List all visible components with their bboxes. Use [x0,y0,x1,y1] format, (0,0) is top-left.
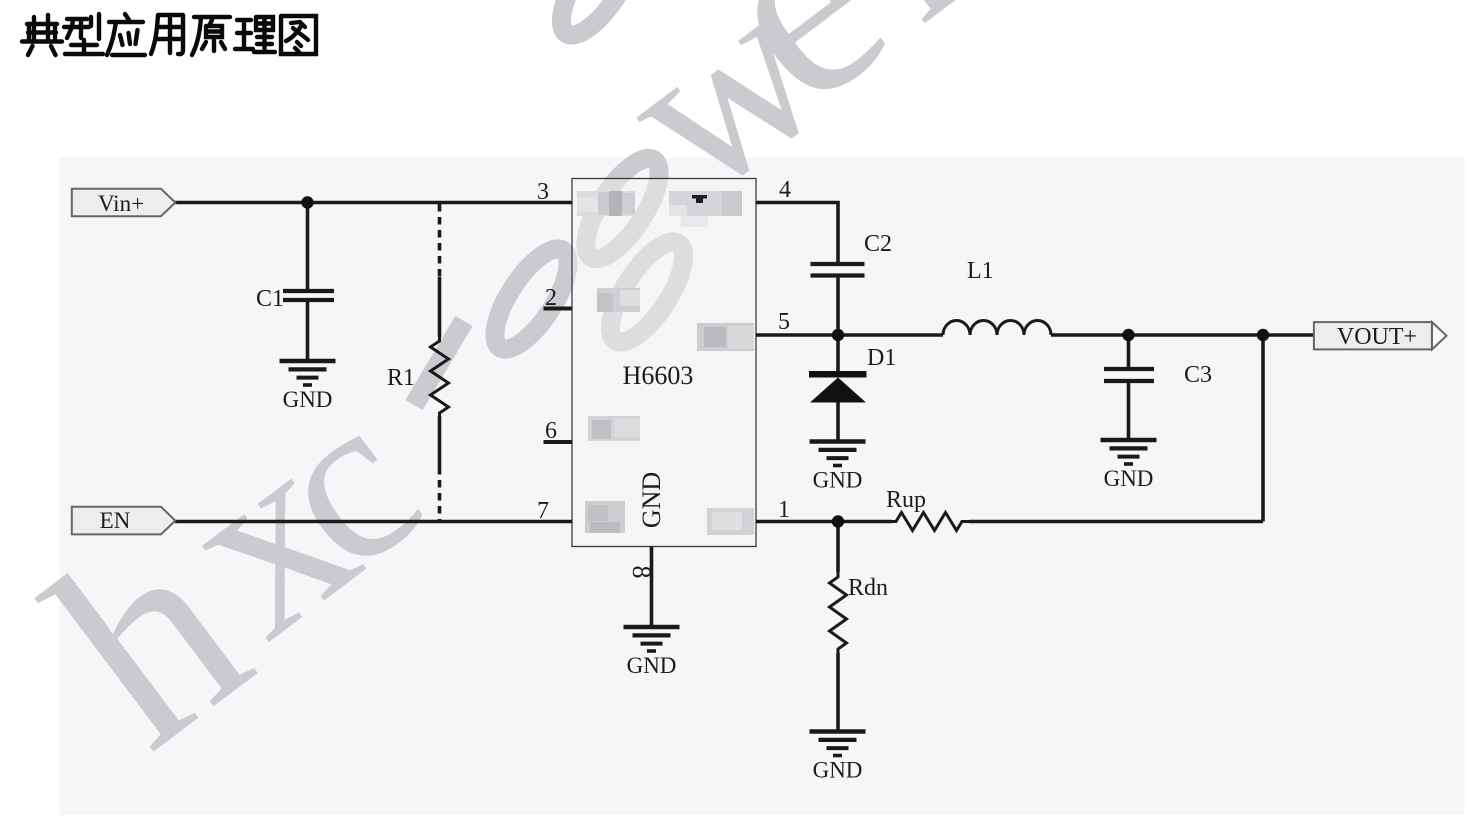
node pin1/Rup/Rdn junction [832,515,844,527]
resistor Rdn zigzag [830,572,847,653]
wire C3 top [1127,335,1131,369]
char 应 [107,14,145,55]
wire C1 bottom to ground [306,300,310,361]
char 原 [192,17,230,55]
svg-text:D1: D1 [867,345,896,371]
svg-text:C3: C3 [1184,362,1212,388]
IC U1 H6603 body [572,179,756,547]
wire L1 to VOUT+ [1051,333,1313,337]
svg-text:C1: C1 [256,286,284,312]
node pin5/C2/D1 junction [832,329,844,341]
svg-text:R1: R1 [387,365,415,391]
pin 3 name mosaic [577,191,635,216]
svg-text:6: 6 [545,418,557,444]
pin 6 stub [544,440,573,444]
pin 2 name mosaic [597,288,640,312]
node C3 junction [1122,329,1134,341]
node Vin/C1 junction [301,196,313,208]
wire Rdn to ground [836,653,840,732]
port EN [72,507,176,535]
pin 5 name mosaic [697,323,754,351]
resistor R1 lower dashed wire [438,467,442,520]
svg-text:VOUT+: VOUT+ [1337,324,1417,350]
wire C2 bottom to pin5 rail [836,276,840,336]
svg-text:Rdn: Rdn [848,575,888,601]
inductor L1 [943,321,1051,336]
wire C3 bottom to ground [1127,381,1131,440]
pin 1 name mosaic [707,508,754,535]
wire Rup to feedback riser [969,520,1263,524]
wire EN to pin 7 (bottom rail) [175,520,572,524]
svg-text:L1: L1 [967,258,994,284]
ground (D1) [810,442,866,493]
capacitor C2 [811,264,865,276]
wire D1 anode to ground [836,403,840,442]
pin 4 name mosaic [669,191,742,227]
svg-text:1: 1 [778,497,790,523]
char 典 [22,15,62,55]
wire pin1 node to Rdn [836,522,840,573]
pin 2 stub [544,307,573,311]
port Vin+ [72,189,176,216]
svg-text:C2: C2 [864,231,892,257]
wire pin 8 to ground [650,547,654,628]
svg-text:EN: EN [100,508,131,533]
resistor R1 upper dashed wire [438,204,442,277]
wire C1 top [306,203,310,292]
pin 7 name mosaic [585,501,625,533]
node VOUT/feedback junction [1257,329,1269,341]
svg-text:2: 2 [545,285,557,311]
svg-text:H6603: H6603 [623,361,694,390]
svg-text:8: 8 [627,566,656,579]
ground (C1) [280,361,336,412]
capacitor C3 [1104,369,1154,381]
resistor R1 upper lead [438,277,442,337]
svg-text:Rup: Rup [886,487,926,513]
svg-text:7: 7 [537,498,549,524]
resistor R1 zigzag [431,337,449,416]
port VOUT+ [1314,322,1447,350]
ground (pin 8) [624,627,680,678]
wire pin 5 rail to L1 [756,333,943,337]
title 典型应用原理图 [22,14,316,55]
char 用 [151,15,183,54]
char 图 [281,16,316,54]
wire pin 4 to C2 top [756,203,838,265]
svg-text:5: 5 [778,309,790,335]
char 理 [235,17,275,52]
svg-text:Vin+: Vin+ [98,191,144,216]
wire feedback riser [1261,335,1265,522]
resistor Rup zigzag [892,513,969,531]
wire pin 1 to Rup [756,520,892,524]
svg-text:3: 3 [537,179,549,205]
schematic panel background [60,158,1465,815]
pin 6 name mosaic [588,416,640,441]
diode D1 [809,371,867,403]
ground (C3) [1101,440,1157,491]
svg-text:GND: GND [637,472,666,528]
resistor R1 lower lead [438,416,442,467]
wire D1 top [836,335,840,371]
svg-text:4: 4 [779,177,791,203]
wire Vin+ to pin 3 (top rail) [175,201,572,205]
char 型 [64,14,103,54]
watermark hxc-power [0,0,1012,804]
ground (Rdn) [810,732,866,783]
capacitor C1 [283,291,334,300]
